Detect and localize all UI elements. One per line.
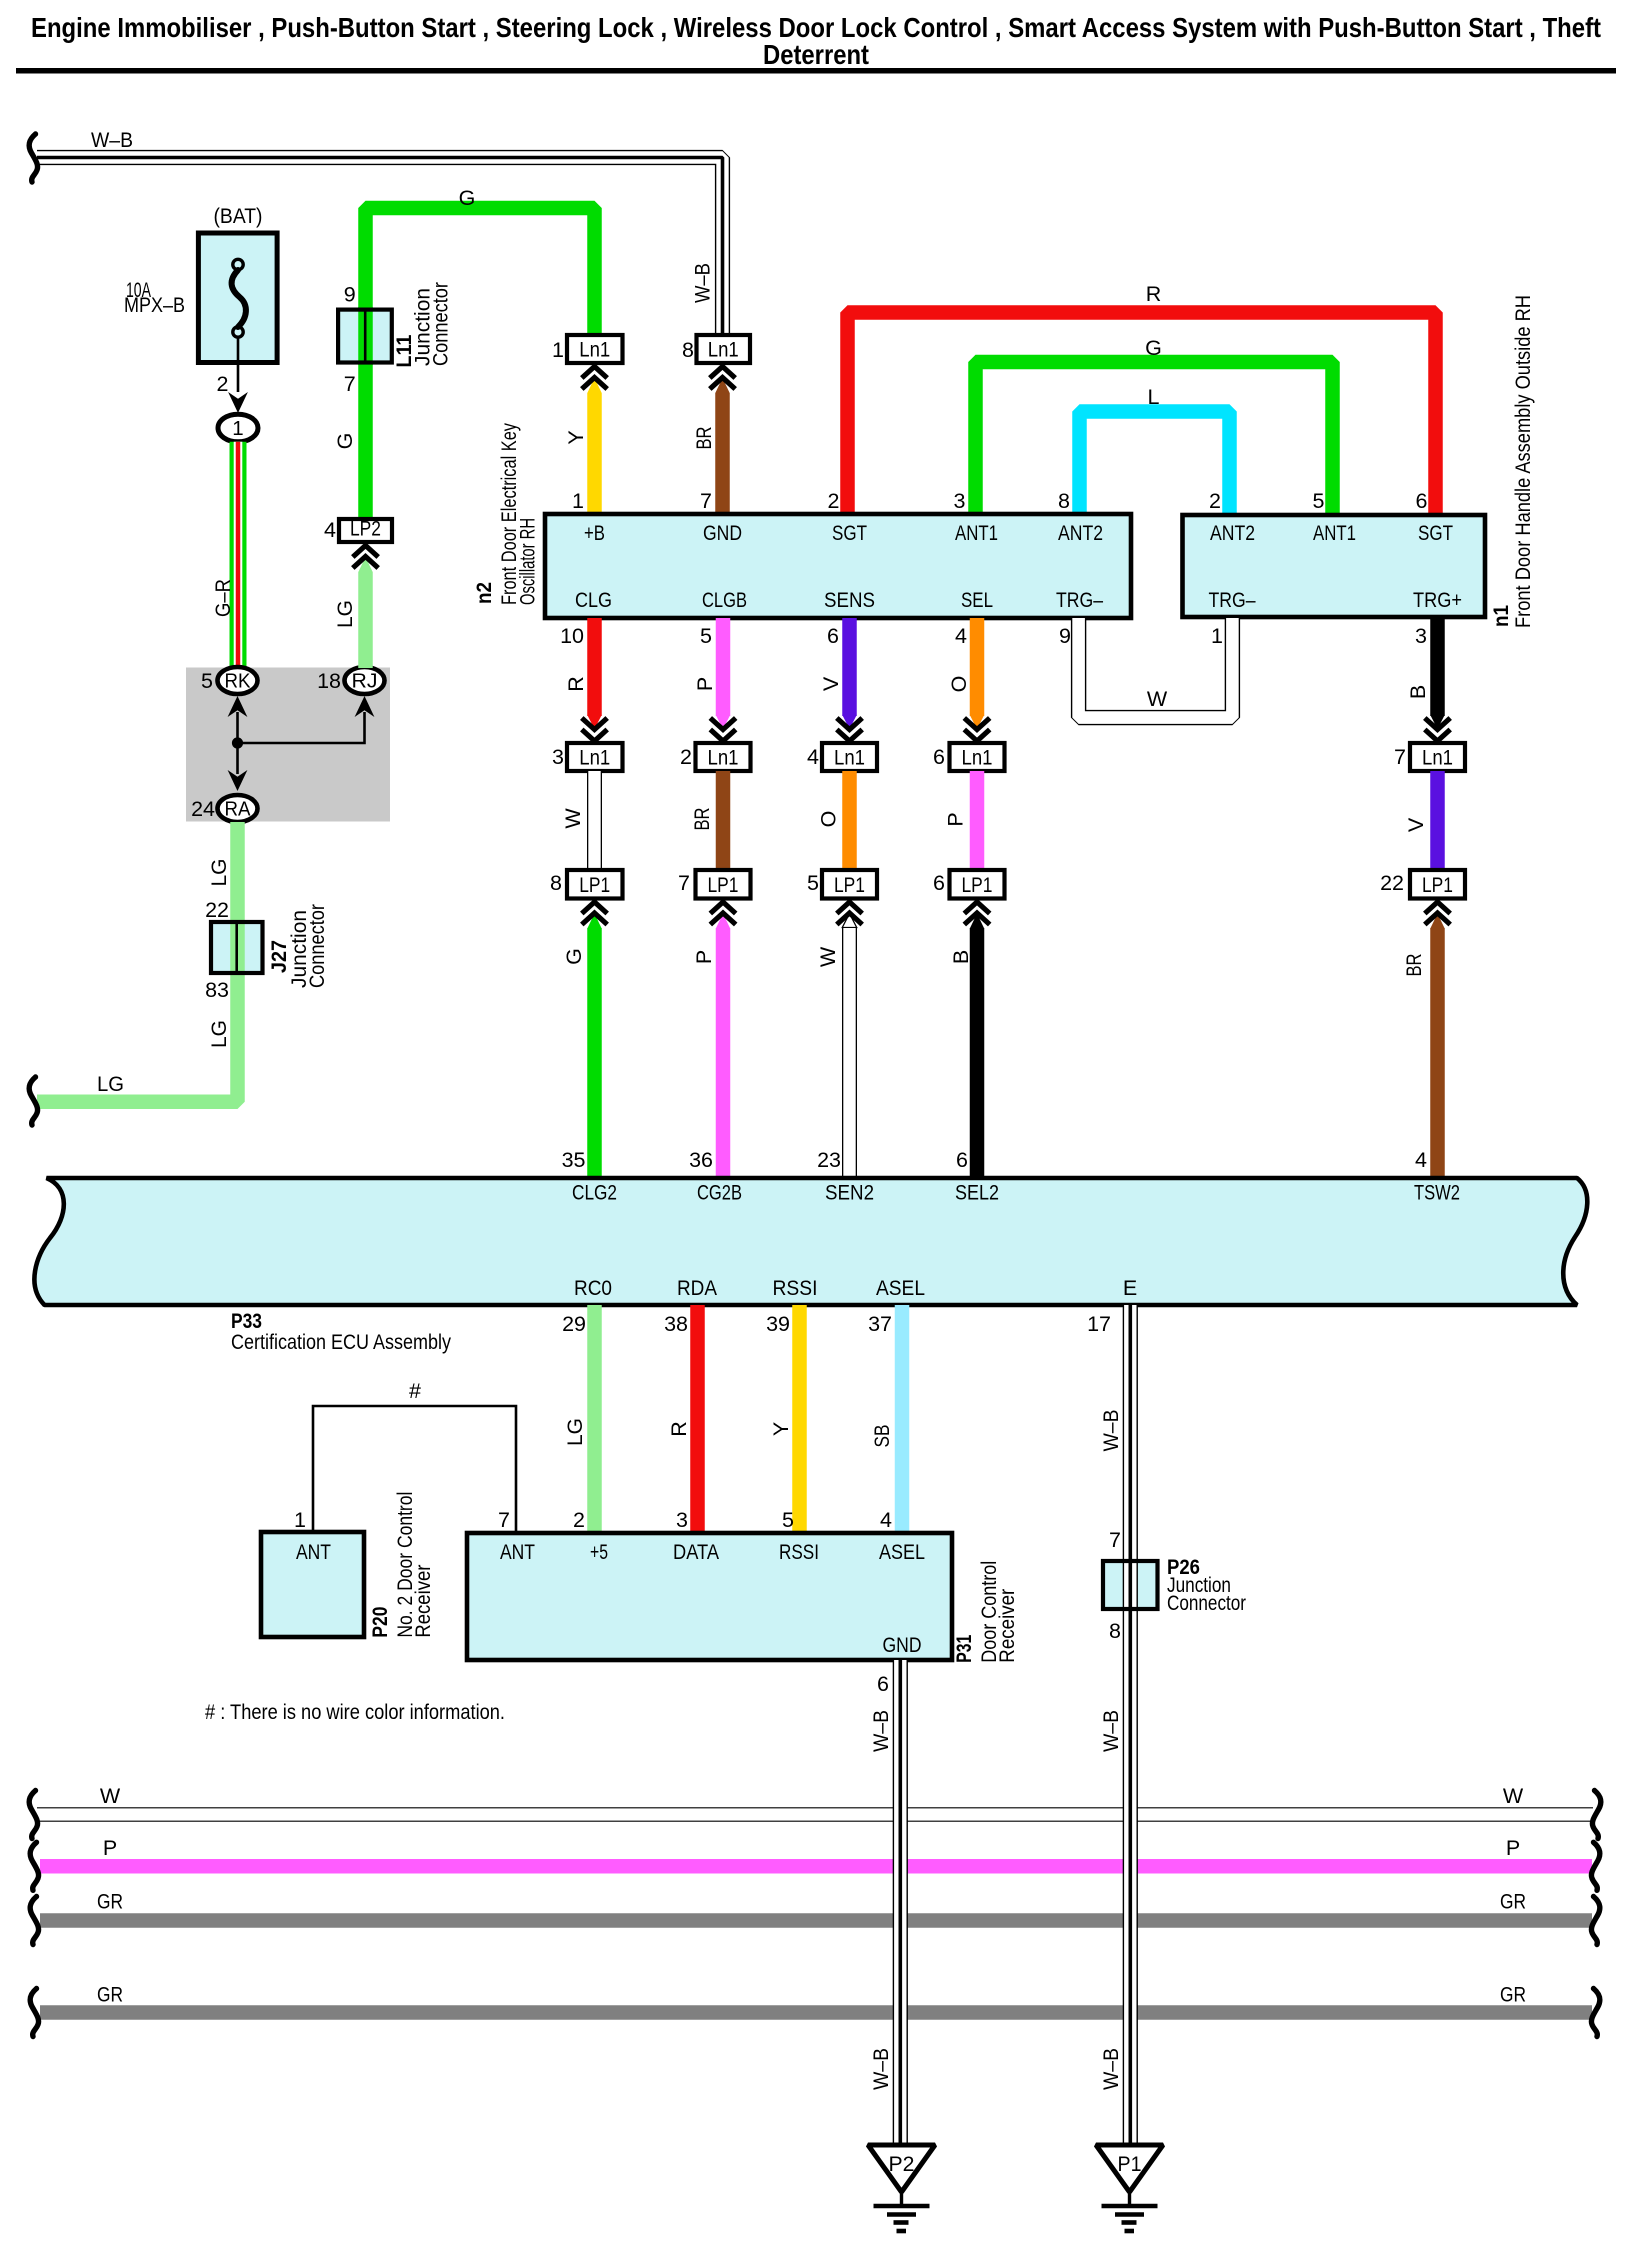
wire W-B from ECU E pin 17 through P26 to ground P1 [1123,1305,1138,2145]
svg-text:8: 8 [1058,489,1070,513]
svg-text:P20: P20 [368,1607,392,1638]
svg-text:TSW2: TSW2 [1414,1181,1460,1205]
svg-text:Connector: Connector [429,282,453,366]
svg-text:P1: P1 [1118,2152,1142,2176]
svg-text:10: 10 [560,624,584,648]
svg-text:GR: GR [1500,1983,1526,2007]
svg-text:LP2: LP2 [350,517,381,541]
component n1 Front Door Handle Assembly Outside RH [1183,515,1486,617]
svg-text:18: 18 [317,669,341,693]
svg-text:SEN2: SEN2 [825,1181,874,1205]
svg-text:O: O [947,676,971,693]
svg-text:TRG+: TRG+ [1413,588,1462,612]
svg-text:#: # [409,1379,421,1403]
svg-text:RSSI: RSSI [773,1276,818,1300]
bus wire P across page [40,1859,1592,1874]
svg-text:CG2B: CG2B [697,1181,742,1205]
component P31 Door Control Receiver [467,1533,952,1660]
svg-text:TRG–: TRG– [1056,588,1103,612]
svg-text:8: 8 [1109,1619,1121,1643]
wire G from junction connector L11 up over to connector Ln1 pin 1 [366,208,595,542]
svg-text:7: 7 [1109,1528,1121,1552]
svg-text:W: W [816,946,840,967]
svg-text:R: R [667,1421,691,1437]
svg-text:ANT: ANT [296,1540,331,1564]
svg-text:ANT1: ANT1 [1313,521,1356,545]
svg-text:LP1: LP1 [579,873,610,897]
wire G from LP1 pin 8 to ECU CLG2 pin 35 [587,928,602,1176]
svg-text:2: 2 [680,745,692,769]
svg-text:SEL: SEL [961,588,993,612]
svg-text:R: R [564,676,588,692]
svg-text:1: 1 [232,417,243,440]
svg-text:Receiver: Receiver [411,1565,435,1638]
svg-text:ASEL: ASEL [876,1276,925,1300]
svg-text:V: V [1404,817,1428,832]
svg-text:SGT: SGT [832,521,867,545]
wire LG from RA through junction connector J27 to left frame [37,822,238,1102]
svg-text:2: 2 [828,489,840,513]
wire LG from ECU RC0 pin 29 to P31 +5 pin 2 [587,1305,602,1533]
wire R from n2 CLG to Ln1 pin 3 [587,618,602,716]
wire W from n2 TRG- pin 9 to n1 TRG- pin 1 [1079,618,1233,718]
svg-text:P: P [103,1836,117,1860]
svg-text:W: W [1147,687,1168,711]
svg-text:P: P [1506,1836,1520,1860]
wire Y from Ln1 pin 1 to n2 +B [587,393,602,514]
svg-text:1: 1 [294,1508,306,1532]
break symbol on W-B wire [29,134,37,182]
svg-text:P2: P2 [889,2152,915,2176]
internal wire RK to junction dot [236,712,239,743]
svg-text:W–B: W–B [869,2048,893,2090]
svg-text:Deterrent: Deterrent [763,39,869,70]
svg-text:39: 39 [766,1312,790,1336]
wire L from n2 ANT2 to n1 ANT2 [1080,412,1230,516]
svg-text:22: 22 [1380,871,1404,895]
junction connector P26 [1103,1561,1158,1609]
wire P from Ln1 pin 6 to LP1 pin 6 [970,771,985,870]
svg-text:LG: LG [97,1072,124,1096]
svg-text:ASEL: ASEL [879,1540,925,1564]
svg-text:38: 38 [664,1312,688,1336]
svg-text:1: 1 [1211,624,1223,648]
svg-text:Y: Y [564,430,588,444]
svg-text:8: 8 [550,871,562,895]
svg-text:LG: LG [207,859,231,887]
svg-text:B: B [949,950,973,964]
wire Y from ECU RSSI pin 39 to P31 RSSI pin 5 [792,1305,807,1533]
wire P from LP1 pin 7 to ECU CG2B pin 36 [716,928,731,1176]
svg-text:GND: GND [703,521,742,545]
svg-text:L: L [1148,385,1160,409]
bus wire GR across page (upper) [40,1913,1592,1928]
svg-text:8: 8 [682,338,694,362]
svg-text:37: 37 [868,1312,892,1336]
svg-text:ANT2: ANT2 [1210,521,1255,545]
svg-text:BR: BR [690,808,714,831]
svg-text:W–B: W–B [1099,1710,1123,1752]
svg-text:R: R [1146,282,1162,306]
svg-text:5: 5 [1313,489,1325,513]
svg-text:G–R: G–R [211,579,235,617]
svg-text:Ln1: Ln1 [834,746,865,770]
svg-text:GND: GND [883,1633,922,1657]
svg-text:6: 6 [956,1148,968,1172]
wire BR from LP1 pin 22 to ECU TSW2 pin 4 [1430,928,1445,1176]
svg-text:1: 1 [572,489,584,513]
svg-text:G: G [562,948,586,965]
wire W from Ln1 pin 3 to LP1 pin 8 [587,771,602,870]
svg-text:n2: n2 [472,582,496,604]
svg-text:6: 6 [933,745,945,769]
svg-text:3: 3 [676,1508,688,1532]
svg-text:7: 7 [344,372,356,396]
svg-text:W: W [561,808,585,829]
svg-text:TRG–: TRG– [1209,588,1256,612]
internal wire dot to RJ [238,712,365,743]
svg-text:B: B [1406,685,1430,699]
wire V from n2 SENS to Ln1 pin 4 [842,618,857,716]
svg-text:Y: Y [769,1422,793,1436]
svg-text:G: G [1145,336,1162,360]
svg-text:6: 6 [933,871,945,895]
svg-text:9: 9 [344,283,356,307]
svg-text:n1: n1 [1489,605,1513,627]
svg-text:RC0: RC0 [574,1276,612,1300]
svg-text:DATA: DATA [673,1540,720,1564]
svg-text:RJ: RJ [352,670,378,693]
svg-text:G: G [333,433,357,450]
svg-text:RA: RA [225,798,251,821]
svg-text:5: 5 [201,669,213,693]
svg-text:4: 4 [807,745,819,769]
svg-text:17: 17 [1087,1312,1111,1336]
svg-text:W–B: W–B [869,1710,893,1752]
bus wire W across page [37,1807,1593,1822]
wire (no color info) from P20 ANT pin 1 to P31 ANT pin 7 [313,1406,516,1533]
svg-text:5: 5 [782,1508,794,1532]
svg-text:1: 1 [552,338,564,362]
svg-text:W–B: W–B [1099,2048,1123,2090]
svg-text:LP1: LP1 [708,873,739,897]
wire BR from Ln1 pin 8 to n2 GND [715,393,730,514]
svg-text:# : There is no wire color inf: # : There is no wire color information. [205,1700,505,1724]
svg-text:RK: RK [225,670,251,693]
svg-text:SGT: SGT [1418,521,1453,545]
svg-text:24: 24 [191,797,215,821]
svg-text:+5: +5 [590,1540,608,1564]
svg-text:23: 23 [817,1148,841,1172]
wire W-B from left frame to connector Ln1 pin 8 [37,158,723,337]
svg-text:P31: P31 [952,1635,976,1663]
component P20 No. 2 Door Control Receiver [261,1532,364,1637]
svg-text:6: 6 [1416,489,1428,513]
svg-text:ANT2: ANT2 [1058,521,1103,545]
svg-text:Certification ECU Assembly: Certification ECU Assembly [231,1330,451,1354]
ground P1 [1096,2145,1163,2192]
svg-text:P: P [693,677,717,691]
svg-text:2: 2 [217,372,229,396]
svg-text:CLGB: CLGB [702,588,747,612]
internal wire dot to RA [236,743,239,774]
svg-text:Ln1: Ln1 [1422,746,1453,770]
svg-text:O: O [817,811,841,828]
svg-text:Receiver: Receiver [995,1589,1019,1663]
wire SB from ECU ASEL pin 37 to P31 ASEL pin 4 [895,1305,910,1533]
wire BR from Ln1 pin 2 to LP1 pin 7 [716,771,731,870]
svg-text:3: 3 [954,489,966,513]
svg-text:Front Door Handle Assembly Out: Front Door Handle Assembly Outside RH [1511,295,1535,628]
component P33 Certification ECU Assembly [34,1178,1587,1305]
node 1 [218,414,258,442]
svg-text:RDA: RDA [677,1276,718,1300]
break symbol on LG wire [29,1077,37,1125]
svg-text:29: 29 [562,1312,586,1336]
svg-text:9: 9 [1059,624,1071,648]
svg-text:V: V [819,676,843,691]
svg-text:SENS: SENS [824,588,875,612]
svg-text:2: 2 [573,1508,585,1532]
svg-text:E: E [1123,1276,1137,1300]
svg-text:W–B: W–B [691,263,715,303]
svg-text:22: 22 [205,898,229,922]
svg-text:4: 4 [955,624,967,648]
wire R from n2 SGT to n1 SGT [848,313,1436,516]
bus wire GR across page (lower) [40,2005,1592,2020]
component n2 Front Door Electrical Key Oscillator RH [545,514,1131,618]
svg-text:36: 36 [689,1148,713,1172]
svg-text:5: 5 [700,624,712,648]
wire B from n1 TRG+ to Ln1 pin 7 [1430,618,1445,716]
svg-text:3: 3 [552,745,564,769]
wire W from LP1 pin 5 to ECU SEN2 pin 23 [842,928,857,1176]
svg-text:LP1: LP1 [962,873,993,897]
svg-text:Ln1: Ln1 [708,746,739,770]
svg-text:6: 6 [827,624,839,648]
svg-text:CLG: CLG [575,588,612,612]
svg-text:LP1: LP1 [834,873,865,897]
wire B from LP1 pin 6 to ECU SEL2 pin 6 [970,928,985,1176]
svg-text:Oscillator RH: Oscillator RH [516,518,540,605]
svg-text:4: 4 [880,1508,892,1532]
svg-text:3: 3 [1415,624,1427,648]
svg-text:BR: BR [692,427,716,450]
junction dot [232,737,243,748]
svg-text:W: W [1503,1784,1524,1808]
svg-text:GR: GR [97,1983,123,2007]
ground P2 [868,2145,935,2192]
svg-text:Connector: Connector [305,904,329,988]
svg-text:MPX–B: MPX–B [124,293,185,317]
wire V from Ln1 pin 7 to LP1 pin 22 [1430,771,1445,870]
svg-text:G: G [459,186,476,210]
svg-text:+B: +B [584,521,605,545]
wire O from Ln1 pin 4 to LP1 pin 5 [842,771,857,870]
svg-text:LG: LG [563,1418,587,1446]
svg-text:5: 5 [807,871,819,895]
svg-text:P: P [692,950,716,964]
svg-text:4: 4 [1415,1148,1427,1172]
svg-text:GR: GR [97,1890,123,1914]
svg-text:ANT: ANT [500,1540,535,1564]
svg-text:SB: SB [870,1425,894,1448]
svg-text:CLG2: CLG2 [572,1181,617,1205]
wire G from n2 ANT1 to n1 ANT1 [976,362,1333,515]
svg-text:83: 83 [205,978,229,1002]
svg-text:Connector: Connector [1167,1591,1246,1615]
svg-text:4: 4 [324,518,336,542]
svg-text:LG: LG [333,600,357,628]
svg-text:ANT1: ANT1 [955,521,998,545]
wire W-B from P31 GND pin 6 to ground P2 [893,1660,908,2145]
svg-text:35: 35 [562,1148,586,1172]
wire O from n2 SEL to Ln1 pin 6 [970,618,985,716]
wire G-R from node 1 to relay block RK [230,442,247,668]
svg-text:7: 7 [700,489,712,513]
svg-text:RSSI: RSSI [779,1540,819,1564]
svg-text:Ln1: Ln1 [579,746,610,770]
svg-text:P: P [944,812,968,826]
svg-text:7: 7 [498,1508,510,1532]
svg-text:7: 7 [1394,745,1406,769]
relay block (shaded) with RK / RJ / RA [186,668,390,822]
svg-text:LG: LG [207,1020,231,1048]
svg-text:W: W [100,1784,121,1808]
svg-text:Ln1: Ln1 [708,338,739,362]
svg-text:6: 6 [877,1672,889,1696]
wire R from ECU RDA pin 38 to P31 DATA pin 3 [690,1305,705,1533]
svg-text:W–B: W–B [91,128,133,152]
svg-text:SEL2: SEL2 [955,1181,999,1205]
svg-text:BR: BR [1402,954,1426,977]
svg-text:GR: GR [1500,1890,1526,1914]
svg-text:2: 2 [1209,489,1221,513]
svg-text:Ln1: Ln1 [579,338,610,362]
svg-text:(BAT): (BAT) [214,204,263,228]
svg-text:W–B: W–B [1099,1410,1123,1452]
wire P from n2 CLGB to Ln1 pin 2 [716,618,731,716]
junction connector J27 [211,922,263,973]
wire LG from LP2 to RJ [358,572,373,668]
svg-text:LP1: LP1 [1422,873,1453,897]
svg-text:7: 7 [678,871,690,895]
title underline rule [16,68,1616,74]
svg-text:Ln1: Ln1 [962,746,993,770]
junction connector L11 [338,310,392,363]
